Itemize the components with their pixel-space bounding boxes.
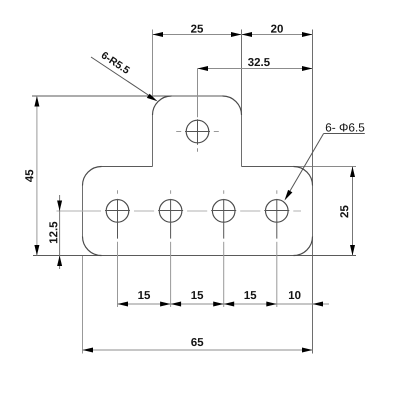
hole B4 extension to bottom dims <box>276 242 278 307</box>
arrow at 117.5 <box>118 302 129 307</box>
dimension line 45 <box>36 96 38 256</box>
hole B3 extension to bottom dims <box>223 242 225 307</box>
arrow left end 32.5 <box>198 66 209 71</box>
hole B2 extension to bottom dims <box>170 242 172 307</box>
text 65 <box>191 338 203 346</box>
arrow 45 top <box>34 96 39 107</box>
dimension line 12.5 <box>59 195 61 269</box>
text 15 c <box>245 291 257 299</box>
corner arc R5.5 top section top-left <box>153 96 172 115</box>
leader line 6-R5.5 <box>91 57 154 99</box>
plate: left edge of bottom section <box>82 186 84 237</box>
corner arc R5.5 bottom section top-right <box>294 167 313 186</box>
text 25 top <box>191 25 203 33</box>
plate: top section left edge <box>152 115 154 167</box>
bowtie arrows at shared extension 241.5 <box>231 32 252 37</box>
arrow right end top dim <box>302 32 313 37</box>
leader arrow 6-phi6.5 <box>285 190 293 201</box>
plate: right edge of bottom section + extensions up/down <box>312 30 314 354</box>
corner arc R5.5 bottom section bottom-left <box>83 237 102 256</box>
dimension line 32.5 <box>198 68 313 70</box>
extension line x=82.5 below plate for 65-dim <box>82 256 84 354</box>
arrow 12.5 bottom outside <box>57 256 62 267</box>
leader underline 6-phi6.5 <box>324 133 365 135</box>
corner arc R5.5 bottom section bottom-right <box>294 237 313 256</box>
hole B2 circle <box>158 190 183 238</box>
extension line above top-left corner <box>152 30 154 97</box>
dimension line 15/15/15/10 bottom <box>118 303 330 305</box>
arrow outside at 312.5 for 10 dim <box>313 302 324 307</box>
dimension line 25 right <box>352 167 354 256</box>
arrow 65 left <box>83 348 94 353</box>
bowtie at 170.6 <box>160 302 181 307</box>
bowtie at 223.7 <box>213 302 234 307</box>
text 25 right rotated <box>340 206 348 218</box>
text 20 top <box>271 25 283 33</box>
top hole vertical centerline <box>197 69 199 152</box>
corner arc R5.5 top section top-right <box>223 96 242 115</box>
plate: bottom section top edge right segment <box>242 166 294 168</box>
arrow 12.5 top outside <box>57 201 62 212</box>
arrow left end top dim <box>153 32 164 37</box>
text 6-phi6.5 <box>326 123 364 131</box>
dimension line 25/20 top <box>153 34 313 36</box>
plate: bottom section top edge left segment <box>102 166 153 168</box>
text 6-R5.5 rotated <box>101 51 131 74</box>
arrow 65 right <box>302 348 313 353</box>
leader arrow 6-R5.5 <box>147 94 158 102</box>
top hole circle <box>186 120 209 143</box>
arrow 25r bottom <box>350 245 355 256</box>
text 15 a <box>138 291 150 299</box>
hole B4 circle <box>264 190 289 238</box>
extension line from plate to right 25-dim <box>294 166 357 168</box>
top hole horizontal centerline <box>176 131 219 133</box>
text 10 <box>289 291 301 299</box>
text 15 b <box>191 291 203 299</box>
hole B3 circle <box>211 190 236 238</box>
arrow 45 bottom <box>34 245 39 256</box>
text 12.5 rotated <box>49 222 57 243</box>
bottom holes row long centerline <box>57 210 302 212</box>
arrow right end 32.5 <box>302 66 313 71</box>
plate: top section right edge + extension to top dims <box>241 30 243 167</box>
text 45 rotated <box>25 170 33 182</box>
hole B1 circle <box>105 190 130 238</box>
arrow 25r top <box>350 167 355 178</box>
dimension line 65 <box>83 349 313 351</box>
leader line 6-phi6.5 <box>287 134 323 196</box>
corner arc R5.5 bottom section top-left <box>83 167 102 186</box>
arrow at 276.8 <box>266 302 277 307</box>
plate top edge with 45-dim extension <box>32 95 223 97</box>
text 32.5 <box>248 58 270 66</box>
hole B1 extension to bottom dims <box>117 242 119 307</box>
plate: bottom edge with extensions both sides <box>33 255 356 257</box>
